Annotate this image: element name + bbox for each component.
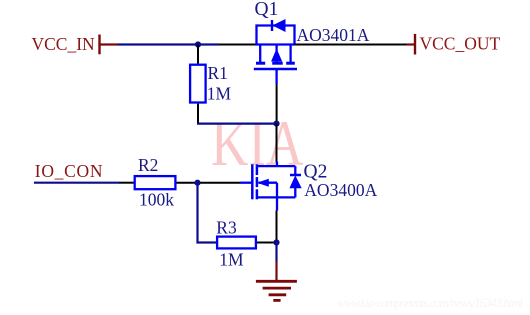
- middle stub with arrow: [275, 45, 277, 63]
- transistor Q2 (N-MOSFET AO3400A): [240, 162, 301, 211]
- svg-text:AO3400A: AO3400A: [304, 180, 377, 200]
- junction node VCC_IN / R1 top: [195, 41, 201, 47]
- label R3: [216, 217, 237, 237]
- wire R1 top lead (black): [197, 45, 199, 64]
- junction R2 / R3 / Q2 gate node: [194, 180, 200, 186]
- channel segments: [256, 164, 259, 175]
- label Q1: [255, 0, 279, 20]
- label 1M (R3 value): [219, 249, 244, 269]
- svg-text:1M: 1M: [207, 84, 232, 104]
- svg-text:VCC_IN: VCC_IN: [32, 34, 96, 54]
- channel bars: [256, 62, 265, 65]
- svg-text:R3: R3: [216, 217, 237, 237]
- svg-text:Q1: Q1: [255, 0, 279, 20]
- port VCC_IN: [32, 34, 118, 55]
- gate lead: [240, 182, 252, 184]
- wire Q2 source lead to ground node (black): [276, 211, 278, 243]
- svg-text:1M: 1M: [219, 249, 244, 269]
- bottom (source) stub: [257, 196, 295, 198]
- ground: [256, 262, 297, 301]
- port VCC_OUT: [407, 34, 501, 55]
- label AO3401A (Q1 value): [297, 25, 370, 45]
- svg-text:VCC_OUT: VCC_OUT: [420, 34, 501, 54]
- drain lead up: [276, 162, 278, 167]
- wire R1 to Q1 gate node (navy): [197, 122, 277, 124]
- label AO3400A (Q2 value): [304, 180, 377, 200]
- right stub: [289, 45, 291, 63]
- junction Q2 source / R3 / ground node: [273, 239, 279, 245]
- wire R3 to ground node (black): [257, 242, 277, 244]
- resistor R3: [217, 237, 256, 249]
- wire R2 to Q2 gate (black): [177, 182, 241, 184]
- wire R2 node down to R3 (navy): [198, 183, 217, 243]
- svg-text:100k: 100k: [139, 189, 174, 209]
- port IO_CON (net label): [35, 161, 103, 181]
- top (drain) stub: [257, 165, 295, 167]
- junction Q1 gate / R1 / Q2 drain node: [273, 121, 279, 127]
- watermark URL: [337, 296, 524, 310]
- middle stub with arrow: [259, 182, 278, 184]
- wire node to Q2 drain (black): [276, 124, 278, 163]
- wire node to Q1 source (black): [219, 44, 257, 46]
- label R1: [208, 63, 228, 83]
- resistor R1: [190, 65, 206, 103]
- label 1M (R1 value): [207, 84, 232, 104]
- wire IO_CON to R2 (navy under text): [34, 182, 119, 184]
- main S-D line: [257, 43, 295, 45]
- label R2: [138, 155, 158, 175]
- left stub: [259, 45, 261, 63]
- svg-text:R1: R1: [208, 63, 228, 83]
- transistor Q1 (P-MOSFET AO3401A): [254, 20, 297, 84]
- svg-text:R2: R2: [138, 155, 158, 175]
- label 100k (R2 value): [139, 189, 174, 209]
- source lead down: [276, 197, 278, 210]
- label Q2: [304, 161, 328, 182]
- gate lead: [275, 69, 277, 84]
- wire Q1 gate lead lower segment (black): [276, 84, 278, 124]
- wire Q1 drain to VCC_OUT (black): [295, 44, 407, 46]
- wire net VCC_IN: port to Q1 source branch (navy): [118, 43, 220, 45]
- gate plate: [254, 68, 297, 71]
- source-drain top loop with body diode: [257, 26, 295, 45]
- gate bar: [251, 164, 254, 199]
- resistor R2: [135, 176, 176, 189]
- middle-to-bottom connector: [276, 183, 278, 198]
- svg-text:IO_CON: IO_CON: [35, 161, 103, 181]
- wire R1 bottom lead (black): [197, 104, 199, 123]
- wire to R2 left lead (black): [119, 182, 134, 184]
- svg-text:www.kia-components.com/news/16: www.kia-components.com/news/16343.html: [337, 296, 524, 310]
- wire ground stub (navy): [275, 243, 277, 262]
- watermark KIA: [211, 108, 304, 180]
- body diode branch: [294, 166, 296, 174]
- svg-text:AO3401A: AO3401A: [297, 25, 370, 45]
